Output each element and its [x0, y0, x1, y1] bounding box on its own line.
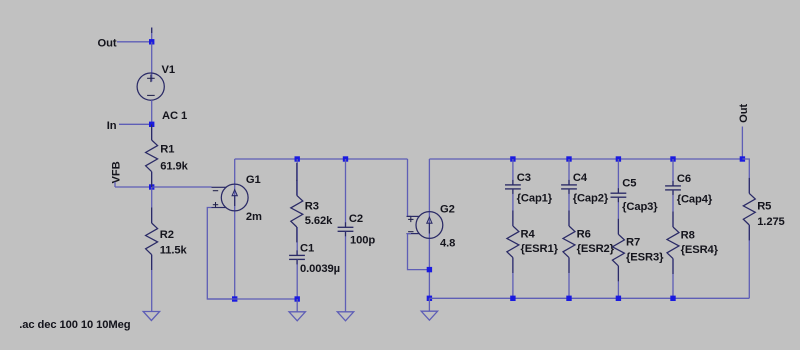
wire node to V1 top: [151, 42, 153, 82]
G1 plus sign: [213, 204, 218, 206]
wire C6 to R8: [672, 190, 674, 227]
wire top rail (G1 output net): [235, 158, 408, 160]
capacitor C6: [665, 185, 681, 187]
node G2 bottom junction: [427, 296, 432, 301]
capacitor C2: [338, 226, 354, 228]
G1 minus input lead: [212, 186, 227, 188]
svg-text:G1: G1: [246, 174, 261, 186]
ground below R3C1 branch: [289, 312, 305, 321]
node R3 branch top: [295, 156, 300, 161]
wire C3 to R4: [512, 189, 514, 226]
wire R3 to C1: [296, 227, 298, 255]
svg-text:{Cap3}: {Cap3}: [622, 201, 658, 213]
wire G2 minus feedback: [408, 234, 430, 270]
svg-text:R3: R3: [305, 201, 319, 213]
wire C4 to R6: [568, 189, 570, 226]
svg-text:5.62k: 5.62k: [305, 215, 333, 227]
wire Out label stub: [741, 127, 743, 160]
resistor R1: [146, 140, 158, 172]
resistor R2: [146, 223, 158, 255]
svg-text:11.5k: 11.5k: [160, 245, 188, 257]
node C3 top: [510, 156, 515, 161]
wire V1 bottom to In node: [151, 100, 153, 140]
node C6R8 bottom: [670, 296, 675, 301]
resistor R5: [743, 193, 755, 225]
svg-text:1.275: 1.275: [757, 216, 785, 228]
capacitor C3: [505, 184, 521, 186]
node Out junction: [740, 156, 745, 161]
wire rail to C3: [512, 159, 514, 185]
resistor R7: [612, 234, 624, 266]
svg-text:100p: 100p: [350, 234, 375, 246]
wire rail to C5: [617, 159, 619, 193]
resistor R8: [667, 227, 679, 259]
svg-text:R6: R6: [577, 228, 591, 240]
node C5 top: [616, 156, 621, 161]
wire Out label to node: [117, 41, 152, 43]
component lead overlays (navy pin leads): [151, 125, 153, 141]
wire C5 to R7: [617, 197, 619, 234]
wire G2 ground stub: [428, 298, 430, 311]
svg-text:{Cap4}: {Cap4}: [677, 194, 713, 206]
wire bottom output rail: [429, 297, 749, 299]
svg-text:Out: Out: [738, 104, 750, 123]
svg-text:C1: C1: [300, 242, 314, 254]
capacitor C1: [289, 254, 305, 256]
svg-text:0.0039µ: 0.0039µ: [300, 263, 340, 275]
node C2 top: [343, 156, 348, 161]
svg-text:In: In: [107, 120, 117, 132]
vccs G1 (transconductance source): [221, 184, 248, 211]
node G1 bottom junction: [232, 296, 237, 301]
G2 plus sign: [408, 218, 413, 220]
wire R6 to bottom rail: [568, 258, 570, 299]
wire R1 bottom to VFB node: [151, 172, 153, 187]
svg-text:AC 1: AC 1: [162, 110, 187, 122]
wire G2 vertical through: [428, 159, 430, 298]
resistor R6: [563, 226, 575, 258]
ground below G2: [421, 311, 437, 320]
node C6 top: [670, 156, 675, 161]
wire node jog to R5: [742, 159, 749, 193]
resistor R3: [291, 195, 303, 227]
wire G1 vertical through: [234, 159, 236, 299]
wire VFB node to R2: [151, 187, 153, 223]
wire G1 plus input down-around: [207, 208, 234, 300]
voltage source V1: [137, 73, 164, 100]
G2 minus sign: [408, 231, 413, 233]
svg-text:G2: G2: [440, 204, 455, 216]
svg-text:R5: R5: [757, 201, 771, 213]
wire rail to C4: [568, 159, 570, 185]
svg-text:C2: C2: [349, 213, 363, 225]
R3 top lead dark overlay: [296, 163, 298, 181]
node C5R7 bottom: [616, 296, 621, 301]
svg-text:C3: C3: [517, 172, 531, 184]
svg-text:R7: R7: [626, 237, 640, 249]
svg-text:R1: R1: [160, 143, 174, 155]
svg-text:{Cap1}: {Cap1}: [517, 193, 553, 205]
svg-text:{Cap2}: {Cap2}: [573, 193, 609, 205]
wire top output rail: [429, 158, 742, 160]
wire stub above Out node: [151, 28, 153, 42]
wire R4 to bottom rail: [512, 258, 514, 299]
svg-text:C6: C6: [677, 173, 691, 185]
svg-text:Out: Out: [98, 37, 117, 49]
svg-text:C5: C5: [622, 178, 636, 190]
node C4 top: [566, 156, 571, 161]
svg-text:R2: R2: [160, 229, 174, 241]
wire stub dark tip: [151, 28, 153, 34]
capacitor C5: [611, 192, 627, 194]
svg-text:.ac dec 100 10 10Meg: .ac dec 100 10 10Meg: [19, 319, 130, 331]
svg-text:R8: R8: [681, 229, 695, 241]
resistor R4: [507, 226, 519, 258]
wire rail to C6: [672, 159, 674, 186]
wire In label to node: [119, 123, 152, 125]
wire bottom rail left section: [207, 298, 297, 300]
node C4R6 bottom: [566, 296, 571, 301]
wire R2 bottom to ground: [151, 255, 153, 312]
svg-text:{ESR2}: {ESR2}: [577, 243, 615, 255]
G2 plus input lead: [407, 215, 420, 217]
wire C1 to bottom rail: [296, 259, 298, 299]
wire C2 to ground: [345, 231, 347, 311]
svg-text:V1: V1: [162, 64, 175, 76]
wire VFB label tick: [114, 182, 116, 187]
svg-text:VFB: VFB: [110, 161, 122, 183]
G1 plus input lead: [212, 207, 227, 209]
svg-text:{ESR1}: {ESR1}: [521, 243, 559, 255]
wire rail to R3: [296, 159, 298, 195]
ground below C2: [337, 312, 353, 321]
svg-text:2m: 2m: [246, 211, 262, 223]
svg-text:C4: C4: [573, 172, 588, 184]
G1 minus sign: [213, 190, 218, 192]
wire VFB label to node: [115, 186, 152, 188]
node In junction: [149, 122, 154, 127]
svg-text:R4: R4: [521, 228, 536, 240]
node Out/V1 junction: [149, 39, 154, 44]
wire rail to C2: [345, 159, 347, 227]
svg-text:61.9k: 61.9k: [160, 161, 188, 173]
capacitor C4: [561, 184, 577, 186]
wire node to ground stub: [296, 299, 298, 312]
node R3C1 bottom junction: [295, 296, 300, 301]
ground below R2: [143, 312, 159, 321]
G2 minus input lead: [407, 233, 420, 235]
wire R5 bottom to rail: [748, 225, 750, 298]
svg-text:{ESR4}: {ESR4}: [681, 244, 719, 256]
node G2 feedback junction: [427, 267, 432, 272]
node C3R4 bottom: [510, 296, 515, 301]
wire VFB node to G1 minus input: [152, 186, 212, 188]
vccs G2 (transconductance source): [416, 212, 443, 239]
svg-text:4.8: 4.8: [440, 238, 455, 250]
wire top rail corner down to G2 plus: [408, 159, 412, 216]
wire R8 to bottom rail: [672, 259, 674, 299]
wire R7 to bottom rail: [617, 266, 619, 298]
node VFB junction: [149, 184, 154, 189]
svg-text:{ESR3}: {ESR3}: [626, 252, 664, 264]
